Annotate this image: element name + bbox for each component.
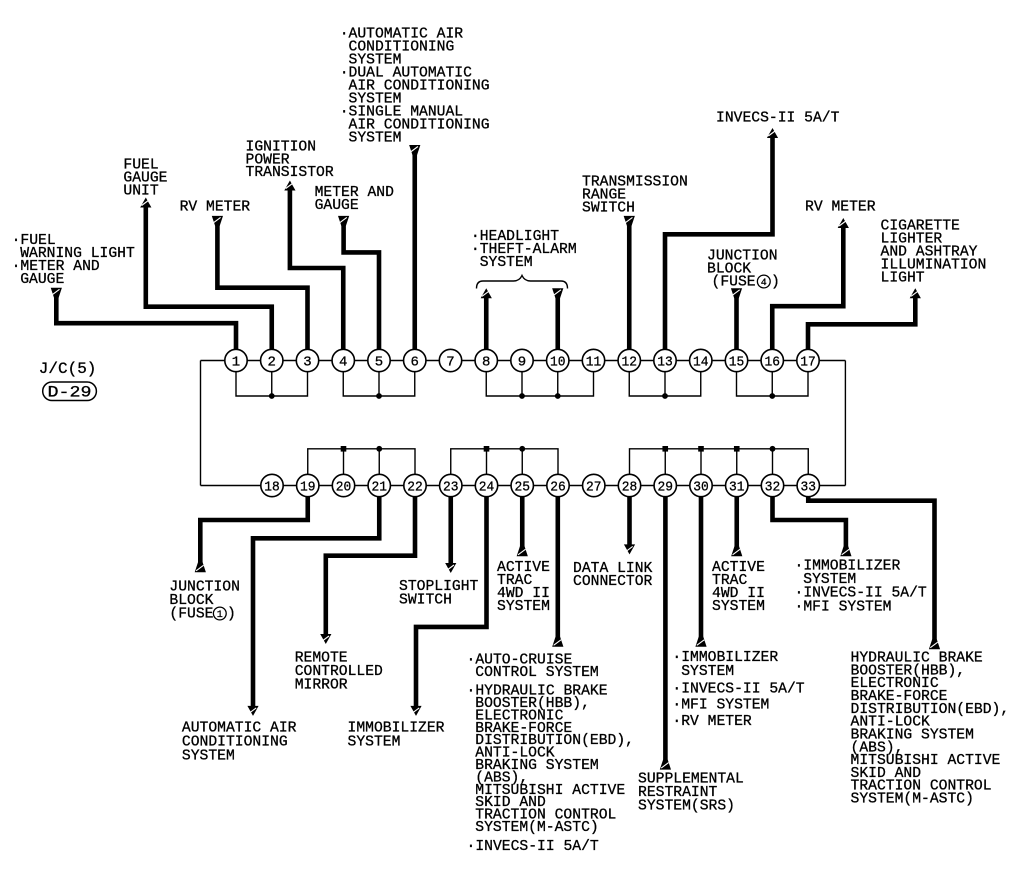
connector code D-29 box: [43, 382, 97, 402]
wire pin13 to INVECS-II 5A/T: [665, 137, 773, 361]
label remote controlled mirror: [295, 651, 383, 694]
svg-text:SWITCH: SWITCH: [399, 593, 452, 609]
svg-text:INVECS-II 5A/T: INVECS-II 5A/T: [716, 111, 840, 127]
svg-text:11: 11: [586, 355, 602, 371]
connector pin 16: [761, 349, 783, 371]
wire: loop pins 15-17: [737, 361, 809, 397]
label ignition power transistor: [246, 140, 334, 182]
connector pin 14: [690, 349, 712, 371]
wire pin1 to fuel warning light: [56, 296, 236, 361]
wire: loop pins 4-6: [343, 361, 415, 397]
arrowhead remote controlled mirror: [320, 634, 331, 644]
svg-text:7: 7: [446, 355, 454, 371]
connector pin 30: [690, 474, 712, 496]
svg-text:6: 6: [411, 355, 419, 371]
label supplemental restraint system: [638, 772, 744, 815]
label hydraulic brake booster group: [851, 651, 1010, 808]
connector pin 7: [439, 349, 461, 371]
svg-text:(FUSE: (FUSE: [169, 607, 213, 623]
arrowhead active trac right: [731, 546, 742, 556]
svg-text:17: 17: [800, 355, 816, 371]
wire pin30 to immobilizer group: [699, 486, 704, 640]
wire: stub pin 31: [736, 449, 738, 486]
junction dot above pin 21: [376, 446, 382, 452]
label fuel gauge unit: [123, 157, 167, 199]
svg-text:SYSTEM: SYSTEM: [497, 599, 550, 615]
wire: stub pin 30: [700, 449, 702, 486]
arrowhead RV meter left: [212, 216, 223, 226]
svg-text:CONTROL SYSTEM: CONTROL SYSTEM: [475, 665, 598, 681]
svg-text:): ): [771, 275, 780, 291]
svg-text:31: 31: [729, 480, 745, 496]
label headlight theft-alarm system: [471, 229, 577, 271]
svg-text:26: 26: [550, 480, 566, 496]
wire: top row bus: [201, 360, 846, 362]
svg-text:MIRROR: MIRROR: [295, 678, 348, 694]
connector pin 9: [511, 349, 533, 371]
label auto-cruise hydraulic brake group: [467, 653, 634, 856]
label automatic air conditioning system bottom: [182, 721, 297, 765]
brace under headlight theft-alarm label: [477, 276, 568, 289]
junction dot above pin 25: [519, 446, 525, 452]
svg-text:20: 20: [336, 480, 352, 496]
svg-text:1: 1: [217, 610, 223, 621]
junction dot above pin 31: [734, 446, 740, 452]
wire: stub pin 25: [521, 449, 523, 486]
svg-text:(FUSE: (FUSE: [712, 275, 756, 291]
wire: stub pin 2: [271, 361, 273, 397]
arrowhead auto-cruise group: [552, 637, 563, 647]
svg-text:15: 15: [729, 355, 745, 371]
wire: loop pins 1-3: [236, 361, 308, 397]
svg-text:UNIT: UNIT: [123, 184, 158, 200]
connector pin 11: [582, 349, 604, 371]
connector pin 22: [404, 474, 426, 496]
wire pin19 to junction block fuse1: [200, 486, 307, 565]
wire: stub pin 24: [486, 449, 488, 486]
wire: stub pin 32: [772, 449, 774, 486]
wire: stub pin 20: [343, 449, 345, 486]
wire pin3 to RV meter left: [217, 224, 307, 361]
svg-text:·MFI SYSTEM: ·MFI SYSTEM: [795, 600, 892, 616]
arrowhead stoplight switch: [445, 563, 456, 573]
wire pin31 to active trac right: [734, 486, 739, 549]
label J/C(5): [39, 360, 97, 378]
junction dot below pin 13: [662, 393, 668, 399]
wire pin12 to transmission range switch: [627, 224, 632, 361]
svg-text:13: 13: [657, 355, 673, 371]
connector pin 3: [296, 349, 318, 371]
label stoplight switch: [399, 579, 479, 609]
wire: stub pin 10: [557, 361, 559, 397]
arrowhead immobilizer group: [695, 637, 706, 647]
wire pin28 to data link connector: [627, 486, 632, 547]
svg-text:28: 28: [622, 480, 638, 496]
arrowhead junction block fuse4: [731, 288, 742, 298]
label data link connector: [573, 561, 653, 590]
svg-text:19: 19: [300, 480, 316, 496]
arrowhead active trac left: [517, 546, 528, 556]
wire: loop pins 23-26: [451, 449, 558, 486]
wire pin2 to fuel gauge unit: [146, 206, 272, 361]
connector pin 19: [297, 474, 319, 496]
arrowhead fuel warning light: [51, 288, 62, 298]
svg-text:SYSTEM: SYSTEM: [681, 664, 734, 680]
arrowhead RV meter right: [838, 218, 849, 228]
wire pin26 to auto-cruise group: [555, 486, 560, 640]
svg-text:SYSTEM: SYSTEM: [182, 749, 235, 765]
svg-text:CONNECTOR: CONNECTOR: [573, 574, 653, 590]
connector pin 20: [332, 474, 354, 496]
svg-text:16: 16: [765, 355, 781, 371]
connector pin 1: [225, 349, 247, 371]
svg-text:23: 23: [443, 480, 459, 496]
svg-text:·INVECS-II 5A/T: ·INVECS-II 5A/T: [672, 682, 804, 698]
connector pin 18: [261, 474, 283, 496]
svg-text:1: 1: [232, 355, 240, 371]
connector pin 13: [654, 349, 676, 371]
connector pin 29: [654, 474, 676, 496]
connector pin 32: [761, 474, 783, 496]
svg-text:29: 29: [658, 480, 674, 496]
svg-text:RV METER: RV METER: [180, 200, 251, 216]
junction dot below pin 10: [555, 393, 561, 399]
wire pin29 to SRS: [663, 486, 668, 762]
label fuel warning light meter and gauge: [12, 233, 135, 288]
svg-text:GAUGE: GAUGE: [20, 272, 64, 288]
svg-text:5: 5: [375, 355, 383, 371]
wire pin33 to hydraulic brake booster: [808, 486, 934, 642]
connector pin 23: [440, 474, 462, 496]
wire pin25 to active trac left: [520, 486, 525, 549]
label transmission range switch: [582, 175, 688, 217]
junction dot above pin 24: [484, 446, 490, 452]
arrowhead headlight theft-alarm right: [552, 288, 563, 298]
label active trac left: [497, 560, 550, 615]
circled 1 in fuse1 label: [213, 607, 235, 623]
connector pin 12: [618, 349, 640, 371]
wire pin22 to remote controlled mirror: [326, 486, 415, 636]
svg-text:22: 22: [407, 480, 423, 496]
connector pin 25: [511, 474, 533, 496]
svg-text:GAUGE: GAUGE: [315, 198, 359, 214]
wire: stub pin 21: [378, 449, 380, 486]
label junction block fuse1: [169, 580, 240, 623]
wire: left link pin1 to pin18: [200, 361, 202, 486]
label RV meter right: [805, 200, 876, 216]
junction dot below pin 16: [769, 393, 775, 399]
svg-text:24: 24: [479, 480, 495, 496]
svg-text:9: 9: [518, 355, 526, 371]
svg-text:SYSTEM: SYSTEM: [348, 735, 401, 751]
wire pin5 to meter and gauge: [344, 224, 379, 361]
connector pin 15: [725, 349, 747, 371]
svg-text:18: 18: [264, 480, 280, 496]
junction dot below pin 2: [269, 393, 275, 399]
junction dot above pin 29: [662, 446, 668, 452]
wire pin6 to air conditioning systems: [412, 153, 417, 361]
wire: stub pin 16: [771, 361, 773, 397]
svg-text:SYSTEM(M-ASTC): SYSTEM(M-ASTC): [475, 820, 598, 836]
connector pin 28: [618, 474, 640, 496]
svg-text:32: 32: [765, 480, 781, 496]
arrowhead transmission range switch: [624, 216, 635, 226]
arrowhead junction block fuse1: [195, 562, 206, 572]
arrowhead meter and gauge: [338, 216, 349, 226]
arrowhead fuel gauge unit: [140, 198, 151, 208]
wire pin23 to stoplight switch: [448, 486, 453, 565]
wire: stub pin 5: [378, 361, 380, 397]
svg-text:SYSTEM: SYSTEM: [349, 131, 402, 147]
connector pin 4: [332, 349, 354, 371]
arrowhead cigarette lighter: [910, 288, 921, 298]
svg-text:): ): [227, 607, 236, 623]
connector pin 26: [547, 474, 569, 496]
arrowhead headlight theft-alarm left: [481, 288, 492, 298]
junction dot above pin 30: [698, 446, 704, 452]
svg-text:27: 27: [586, 480, 602, 496]
wire pin8 to headlight theft-alarm: [484, 297, 489, 361]
svg-text:3: 3: [303, 355, 311, 371]
svg-text:8: 8: [482, 355, 490, 371]
arrowhead SRS: [660, 760, 671, 770]
svg-text:RV METER: RV METER: [805, 200, 876, 216]
wire: loop pins 8-11: [486, 361, 593, 397]
junction dot above pin 20: [341, 446, 347, 452]
arrowhead immobilizer system: [410, 706, 421, 716]
wire pin32 to immobilizer invecs mfi: [773, 486, 846, 549]
wire: loop pins 12-14: [629, 361, 701, 397]
connector pin 21: [368, 474, 390, 496]
arrowhead data link connector: [624, 544, 635, 554]
svg-text:21: 21: [372, 480, 388, 496]
connector pin 2: [261, 349, 283, 371]
arrowhead automatic air conditioning: [247, 706, 258, 716]
junction dot above pin 32: [770, 446, 776, 452]
connector pin 5: [368, 349, 390, 371]
label cigarette lighter and ashtray illumination light: [881, 219, 987, 287]
svg-text:10: 10: [550, 355, 566, 371]
svg-text:TRANSISTOR: TRANSISTOR: [246, 165, 334, 181]
svg-text:14: 14: [693, 355, 709, 371]
svg-text:·RV METER: ·RV METER: [672, 714, 752, 730]
svg-text:25: 25: [515, 480, 531, 496]
svg-text:SWITCH: SWITCH: [582, 201, 635, 217]
connector pin 33: [797, 474, 819, 496]
wire: stub pin 13: [664, 361, 666, 397]
svg-text:J/C(5): J/C(5): [39, 360, 97, 378]
connector pin 8: [475, 349, 497, 371]
connector pin 6: [404, 349, 426, 371]
svg-text:SYSTEM: SYSTEM: [480, 255, 533, 271]
wire pin16 to RV meter right: [772, 227, 843, 361]
connector pin 24: [475, 474, 497, 496]
junction dot below pin 9: [519, 393, 525, 399]
wire pin21 to automatic air conditioning: [253, 486, 379, 708]
label junction block fuse4: [707, 249, 778, 291]
junction dot below pin 5: [376, 393, 382, 399]
label automatic air conditioning system group: [340, 27, 490, 147]
svg-text:LIGHT: LIGHT: [881, 271, 925, 287]
label active trac right: [712, 560, 765, 615]
svg-text:2: 2: [268, 355, 276, 371]
svg-text:33: 33: [801, 480, 817, 496]
label INVECS-II 5A/T top: [716, 111, 840, 127]
label immobilizer system bottom: [348, 721, 445, 751]
wire: bottom row bus: [201, 485, 846, 487]
wire: stub pin 9: [521, 361, 523, 397]
label immobilizer invecs mfi group: [795, 559, 927, 616]
wire: loop pins 28-33: [630, 449, 809, 486]
svg-text:4: 4: [339, 355, 347, 371]
arrowhead INVECS-II 5A/T: [767, 128, 778, 138]
svg-text:SYSTEM: SYSTEM: [712, 599, 765, 615]
wire pin4 to ignition power transistor: [290, 189, 343, 361]
svg-text:SYSTEM(M-ASTC): SYSTEM(M-ASTC): [851, 792, 974, 808]
arrowhead air conditioning systems: [409, 145, 420, 155]
svg-text:12: 12: [622, 355, 638, 371]
svg-text:SYSTEM(SRS): SYSTEM(SRS): [638, 799, 735, 815]
connector pin 17: [797, 349, 819, 371]
arrowhead immobilizer invecs mfi: [840, 546, 851, 556]
svg-text:30: 30: [693, 480, 709, 496]
wire: loop pins 19-22: [308, 449, 415, 486]
svg-text:·INVECS-II 5A/T: ·INVECS-II 5A/T: [467, 839, 599, 855]
wire pin10 to headlight theft-alarm: [555, 297, 560, 361]
label RV meter left: [180, 200, 251, 216]
svg-text:·MFI SYSTEM: ·MFI SYSTEM: [672, 698, 769, 714]
arrowhead hydraulic brake booster: [929, 639, 940, 649]
connector pin 31: [726, 474, 748, 496]
circled 4 in fuse4 label: [757, 275, 779, 291]
wire pin17 to cigarette lighter: [808, 297, 915, 361]
connector pin 10: [547, 349, 569, 371]
svg-text:D-29: D-29: [48, 384, 92, 402]
label immobilizer invecs mfi rv group: [672, 650, 804, 730]
wire: right link pin17 to pin33: [844, 361, 846, 486]
connector pin 27: [583, 474, 605, 496]
wire pin24 to immobilizer system: [416, 486, 487, 708]
arrowhead ignition power transistor: [284, 181, 295, 191]
wire: stub pin 29: [664, 449, 666, 486]
label meter and gauge: [315, 185, 395, 214]
svg-text:4: 4: [761, 278, 767, 289]
wire pin15 to junction block fuse4: [734, 297, 739, 361]
